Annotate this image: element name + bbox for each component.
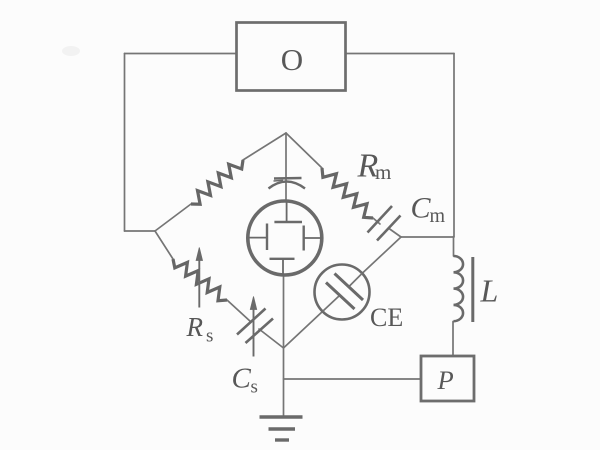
svg-text:CE: CE	[370, 303, 403, 332]
wire lower-right arm bottom segment	[284, 311, 324, 348]
wire inductor to P box	[452, 322, 454, 357]
capacitor Cm plate 2	[377, 216, 401, 241]
wire lower-left arm from left node	[155, 231, 173, 259]
wire upper-right arm from top vertex	[286, 133, 322, 168]
capacitor Cs (variable) plate 1	[237, 309, 266, 335]
ground	[260, 417, 303, 440]
wire Cm to right node	[389, 229, 401, 238]
crystal bottom lead	[282, 259, 284, 276]
svg-text:R: R	[186, 312, 204, 342]
crystal tube envelope	[248, 201, 322, 275]
svg-text:P: P	[437, 365, 454, 395]
svg-text:C: C	[232, 363, 252, 395]
arrow of Cs	[250, 297, 256, 357]
resistor upper-left bridge arm	[191, 160, 243, 204]
wire right node to right vertical	[401, 236, 454, 238]
inductor L coil	[454, 256, 464, 321]
detector box P	[421, 356, 474, 401]
crystal right lead	[304, 237, 322, 239]
wire crystal bottom to ground	[283, 276, 285, 416]
cell CE envelope	[315, 265, 370, 320]
crystal electrodes	[267, 222, 304, 259]
resistor Rs (variable)	[173, 259, 227, 301]
wire Cs to bottom node	[259, 329, 284, 348]
wire Rs to Cs plate	[227, 300, 251, 322]
wire top-right horizontal	[346, 53, 454, 55]
smudge	[62, 46, 80, 56]
wire upper-left arm lower segment	[155, 204, 191, 231]
svg-text:C: C	[411, 192, 432, 225]
resistor Rm	[322, 168, 373, 218]
trimmer capacitor above crystal: straight plate	[269, 178, 306, 189]
electrode left bar	[266, 224, 268, 251]
capacitor Cm plate 1	[368, 206, 393, 233]
wire upper-left arm upper segment	[243, 133, 286, 160]
electrode right bar	[303, 226, 305, 251]
crystal left lead	[248, 237, 267, 239]
wire top-left horizontal	[125, 53, 237, 55]
cell CE plate 1	[335, 274, 364, 301]
wire right vertical upper	[453, 54, 455, 237]
crystal top lead	[286, 201, 288, 222]
wire CE inner lead lower	[323, 296, 339, 311]
wire top vertex to capacitor	[285, 133, 287, 201]
electrode bottom bar	[270, 258, 295, 260]
svg-text:s: s	[251, 377, 258, 398]
svg-text:m: m	[430, 205, 446, 227]
capacitor Cs plate 2	[246, 319, 274, 344]
svg-text:L: L	[480, 273, 499, 309]
oscillator box O	[237, 23, 346, 91]
svg-text:O: O	[281, 42, 303, 77]
wire right vertical to inductor	[453, 237, 455, 257]
wire bottom horizontal to P box	[284, 378, 422, 380]
wire left stub to bridge left node	[125, 230, 156, 232]
wire CE inner lead upper	[350, 274, 363, 287]
cell CE plate 2	[326, 283, 355, 310]
arrow of Rs	[196, 248, 202, 308]
trimmer capacitor curved plate	[269, 182, 306, 189]
wire left vertical	[124, 54, 126, 232]
svg-text:m: m	[375, 160, 391, 184]
inductor core bar	[471, 257, 474, 322]
wire lower-right arm top segment	[362, 237, 401, 274]
svg-text:s: s	[206, 326, 213, 347]
wire Rm to Cm plate	[373, 218, 380, 224]
electrode top bar	[274, 221, 302, 223]
